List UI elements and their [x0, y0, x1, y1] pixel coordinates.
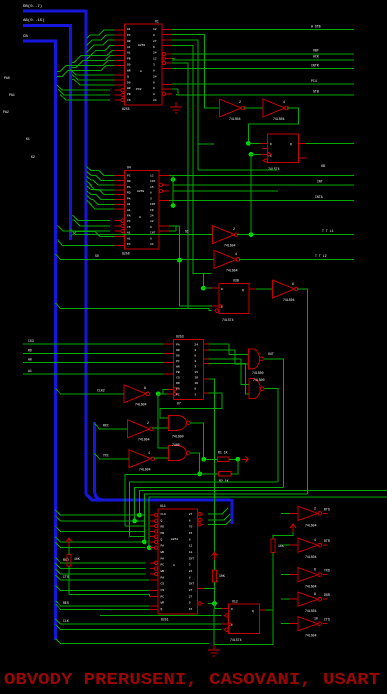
- wire bus1 to U11 y590.7: [56, 586, 150, 591]
- U3B internal labels: [221, 288, 244, 309]
- U3A pin Qbar stub: [298, 157, 306, 159]
- title text: [4, 670, 380, 689]
- loop5 wire y493.8: [144, 494, 307, 542]
- U11 left pins group2: [150, 561, 158, 576]
- wire dot to U3B D: [203, 287, 212, 289]
- resistor R2: [219, 472, 232, 476]
- label y562.8: [63, 558, 69, 562]
- U4 right pin y191: [159, 189, 169, 192]
- svg-text:PC0: PC0: [136, 88, 142, 91]
- wire invF dot down to G2A: [158, 394, 168, 448]
- svg-text:TXC: TXC: [103, 454, 109, 458]
- net label y95: [313, 90, 319, 94]
- U4 right pin y175.5: [159, 175, 169, 177]
- svg-text:74LS04: 74LS04: [224, 244, 236, 248]
- wire U4 pin184.9 long: [173, 184, 354, 186]
- U1 right pin y54 bubble: [162, 52, 172, 55]
- wire dot to R2: [202, 473, 218, 475]
- U4 refdes label: [127, 166, 131, 170]
- svg-text:RD: RD: [28, 348, 32, 352]
- wire bus1 y643.7: [56, 639, 210, 644]
- svg-text:C: C: [231, 624, 233, 627]
- U1 right pin y84.5: [162, 84, 172, 86]
- svg-text:2: 2: [233, 227, 235, 231]
- wire invB out long: [239, 258, 354, 260]
- svg-text:K2: K2: [31, 155, 35, 159]
- U13C output stub: [322, 574, 327, 576]
- svg-text:RXC: RXC: [103, 424, 109, 428]
- nand U8A (NAND1): [248, 349, 263, 369]
- wire bus1 to U11 y574: [56, 569, 146, 574]
- node dot invF out: [156, 391, 161, 396]
- wire U2A out to U2B: [244, 107, 263, 109]
- flip-flop U3A box: [268, 134, 299, 162]
- svg-text:T T L2: T T L2: [315, 254, 327, 258]
- svg-text:INT: INT: [317, 180, 323, 184]
- wire NAND1 out down: [264, 359, 284, 488]
- net label y68.7: [311, 64, 319, 68]
- wire bus1 to U12 y624.1: [56, 619, 222, 624]
- nand U8B (NAND2): [249, 379, 264, 399]
- label U12A above: [232, 600, 238, 604]
- nand U10B (G2): [169, 446, 191, 461]
- svg-text:CS: CS: [161, 583, 165, 586]
- label R1: [218, 451, 228, 455]
- U3A out pin Q: [298, 142, 305, 144]
- svg-text:IR: IR: [150, 209, 154, 212]
- bus AB horizontal: [23, 24, 72, 27]
- wire invE out to G2: [153, 457, 168, 459]
- U3B pin CLR bubble: [214, 309, 219, 312]
- net label y200.4 right: [315, 195, 323, 199]
- wire U12 y615.5: [100, 615, 221, 617]
- label R4: [219, 574, 225, 578]
- label U5B: [226, 252, 238, 273]
- loop3 wire y487.3: [135, 487, 284, 521]
- svg-text:TXD: TXD: [324, 569, 330, 573]
- svg-text:3: 3: [194, 360, 196, 363]
- svg-text:PB: PB: [127, 58, 131, 61]
- wire bus1 y308.4 to U3B: [56, 303, 212, 311]
- svg-text:CS3: CS3: [28, 339, 34, 343]
- svg-text:INTR: INTR: [311, 64, 319, 68]
- U12 pin CLR bubble: [224, 628, 229, 631]
- svg-text:PC: PC: [176, 360, 180, 363]
- label U3B below: [222, 318, 234, 322]
- svg-text:A1: A1: [127, 203, 131, 206]
- U3A internal labels: [270, 143, 292, 158]
- U1 right pin y68.5: [162, 68, 172, 70]
- label invB input: [95, 254, 99, 258]
- U11 right pins top bubbles: [198, 512, 204, 526]
- wire R3 down: [68, 566, 70, 595]
- svg-text:A1: A1: [127, 52, 131, 55]
- svg-text:15: 15: [189, 532, 193, 535]
- inverter U2A: [219, 99, 245, 117]
- svg-text:PC: PC: [127, 174, 131, 177]
- svg-text:A: A: [139, 216, 141, 219]
- wire U11 y588.4 stub: [204, 587, 215, 589]
- vcc arrow x293: [290, 524, 296, 532]
- wire U11 y603.5 to dot: [208, 603, 214, 605]
- svg-text:D0: D0: [176, 354, 180, 357]
- U7 left wire labels: [28, 339, 34, 373]
- wire bus1 to U11 y609.3: [56, 604, 150, 609]
- svg-text:IR: IR: [194, 377, 198, 380]
- U7 right pin y363.7: [203, 363, 208, 365]
- label NAND1 out: [268, 352, 274, 356]
- U1 left control wires to buses: [57, 70, 115, 101]
- inverter U9A (invD): [128, 420, 154, 438]
- svg-text:24: 24: [153, 99, 157, 102]
- svg-text:74LS04: 74LS04: [138, 438, 150, 442]
- wire R5 down: [272, 553, 274, 610]
- label U3B above: [233, 279, 239, 283]
- U13B input wire: [281, 544, 298, 546]
- wire bus1 to U11 y605.8: [56, 601, 150, 606]
- svg-text:24: 24: [150, 243, 154, 246]
- node dot y541.9: [142, 540, 147, 545]
- loop2 wire y482.1: [130, 482, 278, 537]
- U1 refdes label: [155, 20, 159, 24]
- svg-text:D: D: [270, 143, 272, 146]
- wire bus1 to U11 y547.7: [56, 543, 146, 548]
- svg-text:8: 8: [153, 93, 155, 96]
- svg-text:RD: RD: [127, 192, 131, 195]
- svg-text:4: 4: [235, 252, 237, 256]
- bus CB horizontal: [23, 40, 57, 43]
- svg-text:3: 3: [194, 366, 196, 369]
- svg-text:74LS04: 74LS04: [305, 523, 317, 527]
- node dot FF1 D: [246, 141, 251, 146]
- wire U7 y349.8 to NAND1: [208, 350, 248, 364]
- node dot y547.7: [147, 545, 152, 550]
- wire dot to FF1 pin: [248, 142, 261, 144]
- wire U1 pin29 to x354: [172, 29, 354, 31]
- svg-text:RXD: RXD: [63, 558, 69, 562]
- svg-text:T0: T0: [189, 526, 193, 529]
- svg-text:12: 12: [189, 545, 193, 548]
- wire R3 top: [68, 546, 70, 555]
- svg-text:U1: U1: [155, 20, 159, 24]
- U7 right pin y349.8: [203, 349, 208, 351]
- U4 right pin y231.1: [159, 230, 169, 232]
- label U13C below: [305, 568, 317, 589]
- svg-text:A: A: [173, 564, 175, 567]
- label U8A: [252, 371, 264, 375]
- svg-text:9: 9: [153, 81, 155, 84]
- svg-text:DB(0..7): DB(0..7): [23, 4, 42, 9]
- svg-text:OBF: OBF: [313, 49, 319, 53]
- U4 left data wires to bus3: [87, 167, 115, 210]
- svg-text:PA: PA: [127, 197, 131, 200]
- svg-text:CB: CB: [23, 35, 28, 39]
- svg-text:10K: 10K: [219, 574, 225, 578]
- svg-text:Q: Q: [161, 519, 163, 522]
- wire U1 pin84.5 to x354: [172, 83, 354, 85]
- label y605.8: [63, 601, 69, 605]
- node dot x173 y205.5: [171, 203, 176, 208]
- U7 right pin y392.8: [203, 392, 208, 394]
- bus DB vertical (bus3 x86): [86, 10, 92, 500]
- wire U7 y363.7 to NAND2: [208, 364, 249, 394]
- svg-text:8: 8: [194, 388, 196, 391]
- U11 internal pin labels: [161, 513, 195, 611]
- svg-text:74LS04: 74LS04: [273, 117, 285, 121]
- svg-text:PA1: PA1: [9, 93, 15, 97]
- svg-text:U12: U12: [232, 600, 238, 604]
- U4 left control wires to buses: [58, 215, 115, 245]
- wire invD out to F2: [152, 427, 169, 429]
- svg-text:A1: A1: [127, 46, 131, 49]
- svg-text:OUT: OUT: [268, 352, 274, 356]
- U11 right pin y588.4: [198, 587, 204, 589]
- label y580.2: [63, 575, 69, 579]
- svg-text:INT: INT: [150, 180, 156, 183]
- svg-text:9: 9: [153, 46, 155, 49]
- svg-text:PA: PA: [161, 576, 165, 579]
- U11 right pin y603.5 bubble: [198, 602, 204, 605]
- svg-text:27: 27: [189, 589, 193, 592]
- node dot y520.9: [132, 519, 137, 524]
- svg-text:8: 8: [153, 34, 155, 37]
- svg-text:D0: D0: [127, 81, 131, 84]
- U4 center speckle: [137, 190, 144, 219]
- svg-text:A1: A1: [127, 237, 131, 240]
- net label y54: [313, 49, 319, 53]
- U7 right pin y359.1: [203, 358, 208, 360]
- svg-text:CS: CS: [161, 589, 165, 592]
- U13D output stub: [322, 598, 327, 600]
- svg-text:D: D: [231, 608, 233, 611]
- svg-text:CTS: CTS: [324, 618, 330, 622]
- svg-text:INT: INT: [150, 232, 156, 235]
- U13E input wire: [281, 623, 298, 625]
- node dot y515.1: [137, 513, 142, 518]
- svg-text:PA0: PA0: [4, 76, 10, 80]
- U12 pin PR bubble: [224, 614, 229, 617]
- vcc arrow x214.5: [212, 552, 218, 560]
- U7 right pin y344: [203, 343, 208, 345]
- svg-text:3: 3: [153, 64, 155, 67]
- label U13E below: [305, 617, 318, 638]
- svg-text:4: 4: [314, 538, 316, 542]
- net label y84: [311, 79, 317, 83]
- label U6B: [135, 386, 147, 407]
- resistor R5 vertical: [271, 539, 275, 553]
- U3A pin CLR bubble: [263, 159, 268, 162]
- svg-text:INT: INT: [189, 557, 195, 560]
- svg-text:24: 24: [153, 52, 157, 55]
- svg-text:WR: WR: [161, 570, 165, 573]
- svg-text:PA: PA: [176, 343, 180, 346]
- svg-text:A1: A1: [127, 209, 131, 212]
- U13B output stub: [322, 544, 327, 546]
- wire bus1 to U11 y515.1: [56, 510, 146, 515]
- flip-flop U3B box: [219, 283, 249, 313]
- vertical x251 dot2 to invA wire: [250, 154, 252, 234]
- svg-text:CS: CS: [127, 226, 131, 229]
- svg-text:Q: Q: [252, 610, 254, 613]
- U13C input wire: [281, 574, 298, 576]
- left margin net labels: [3, 76, 35, 159]
- svg-text:8255: 8255: [138, 44, 145, 47]
- wire bus2 to invA input: [71, 230, 213, 235]
- svg-text:CLK2: CLK2: [97, 389, 105, 393]
- U1 right pin y89: [162, 88, 172, 90]
- svg-text:Q: Q: [242, 289, 244, 292]
- inverter U2B: [263, 99, 289, 117]
- svg-text:74LS00: 74LS00: [172, 435, 184, 439]
- U12 out pin Q: [260, 609, 266, 611]
- IC U4 8259 box: [125, 170, 160, 249]
- wire U1 pin68.5 to x354: [172, 68, 354, 70]
- svg-text:74LS00: 74LS00: [252, 371, 264, 375]
- U1 right pin y93.8 bubble: [162, 92, 172, 95]
- svg-text:PC: PC: [176, 393, 180, 396]
- svg-text:74LS04: 74LS04: [139, 468, 151, 472]
- svg-text:PA: PA: [127, 214, 131, 217]
- svg-text:8259: 8259: [137, 190, 144, 193]
- svg-text:74LS04: 74LS04: [135, 403, 147, 407]
- svg-text:DSR: DSR: [324, 593, 330, 597]
- svg-text:24: 24: [150, 214, 154, 217]
- wire U1 pin54 to x354: [172, 53, 354, 55]
- U4 right pin y200.4: [159, 199, 169, 201]
- wire U7 y344 to NAND1: [208, 344, 248, 355]
- svg-text:T T L1: T T L1: [322, 229, 334, 233]
- svg-text:8: 8: [314, 592, 316, 596]
- svg-text:WR: WR: [161, 602, 165, 605]
- svg-text:CS: CS: [176, 377, 180, 380]
- inverter U13C stack: [298, 568, 321, 582]
- U12 pin CLK: [222, 622, 233, 626]
- net label y60: [313, 55, 319, 59]
- wire pullup to U11 y596.5: [69, 595, 150, 597]
- svg-text:8255: 8255: [122, 107, 130, 111]
- svg-text:WR: WR: [127, 40, 131, 43]
- U13E output stub: [322, 623, 327, 625]
- svg-text:UB: UB: [321, 164, 325, 168]
- svg-text:6: 6: [314, 568, 316, 572]
- svg-text:74LS74: 74LS74: [222, 318, 234, 322]
- svg-text:RES: RES: [63, 601, 69, 605]
- svg-text:A1: A1: [28, 369, 32, 373]
- wire bus1 to U11 y541.9: [56, 537, 146, 542]
- net label y171 mid: [321, 164, 325, 168]
- svg-text:74LS00: 74LS00: [253, 378, 265, 382]
- resistor R3 vertical: [67, 555, 71, 567]
- node dot R1 left: [201, 457, 206, 462]
- U1 right pin y40: [162, 39, 172, 41]
- bus CB vertical (bus1 x55.5): [54, 40, 57, 641]
- svg-text:D: D: [221, 288, 223, 291]
- U3A pin 2: [263, 148, 268, 150]
- svg-text:WR: WR: [161, 551, 165, 554]
- inverter U13A stack: [298, 506, 321, 520]
- label U13C out: [324, 569, 330, 573]
- label U6A: [283, 282, 295, 302]
- label U9B: [139, 451, 151, 472]
- svg-text:CLK: CLK: [63, 619, 69, 623]
- wire F2 out down to R dot: [190, 423, 204, 460]
- nand U10A (F2): [169, 415, 191, 430]
- svg-text:PB: PB: [127, 93, 131, 96]
- bus label DB(0-7): [23, 4, 42, 9]
- inverter U5A (invA): [212, 226, 238, 244]
- svg-text:A0: A0: [28, 358, 32, 362]
- svg-text:74LS74: 74LS74: [230, 638, 242, 642]
- svg-text:PA: PA: [161, 545, 165, 548]
- svg-text:U7: U7: [177, 402, 181, 406]
- inverter U13B stack: [298, 538, 321, 552]
- wire U1 pin45.5 vert x193: [172, 46, 211, 289]
- svg-text:15: 15: [194, 371, 198, 374]
- svg-text:74LS04: 74LS04: [305, 634, 317, 638]
- svg-text:A1: A1: [127, 28, 131, 31]
- wire U1 pin58.5 to x354: [172, 59, 354, 61]
- U11 refdes label: [160, 504, 166, 508]
- U4 part label below: [122, 252, 130, 256]
- U1 right pin y63 bubble: [162, 61, 172, 64]
- svg-text:OBVODY PRERUSENI, CASOVANI, US: OBVODY PRERUSENI, CASOVANI, USART: [4, 670, 380, 689]
- IC U7 8253 box: [174, 339, 204, 399]
- label U13B below: [305, 538, 317, 559]
- U3A pin CLK: [261, 152, 272, 156]
- wire dot to clock pins: [158, 389, 167, 394]
- node dot invA out: [249, 232, 254, 237]
- svg-text:8: 8: [153, 69, 155, 72]
- svg-text:INTA: INTA: [315, 195, 323, 199]
- U4 internal pin labels: [127, 174, 156, 246]
- label invD input: [103, 424, 109, 428]
- label U10B above: [172, 443, 180, 447]
- label invE input: [103, 454, 109, 458]
- svg-text:PA: PA: [161, 557, 165, 560]
- vertical x173.1 dots: [172, 176, 174, 206]
- svg-text:4: 4: [148, 451, 150, 455]
- svg-text:PC: PC: [161, 564, 165, 567]
- svg-text:2: 2: [239, 100, 241, 104]
- svg-text:PC: PC: [127, 243, 131, 246]
- label U12A below: [230, 638, 242, 642]
- net label invB right: [315, 254, 327, 258]
- wire U7 y392.8 to NANDF2A: [160, 393, 222, 418]
- svg-text:3: 3: [189, 564, 191, 567]
- wire U4 pin225.9: [169, 225, 180, 227]
- bus DB horizontal top: [23, 10, 87, 13]
- IC U11 8251 box: [158, 509, 198, 614]
- inverter U9B (invE): [129, 450, 155, 468]
- node dot x214.5 y603.5: [212, 601, 217, 606]
- wire U1 pin40 vert x198: [172, 40, 214, 144]
- wire U1 pin34.5 vert x204.5: [172, 35, 219, 109]
- svg-text:74LS04: 74LS04: [305, 555, 317, 559]
- svg-text:8253: 8253: [176, 335, 184, 339]
- U3A pin D: [261, 142, 268, 144]
- label invA input: [185, 230, 189, 234]
- svg-text:27: 27: [189, 595, 193, 598]
- svg-text:PC: PC: [161, 595, 165, 598]
- svg-text:RD: RD: [161, 526, 165, 529]
- svg-text:8: 8: [189, 519, 191, 522]
- svg-text:PC4: PC4: [311, 79, 317, 83]
- svg-text:WR: WR: [127, 87, 131, 90]
- U1 right pin y58.5 bubble: [162, 57, 172, 60]
- bus bottom corner vertical x232: [231, 499, 234, 524]
- svg-text:8: 8: [144, 386, 146, 390]
- svg-text:CS: CS: [127, 99, 131, 102]
